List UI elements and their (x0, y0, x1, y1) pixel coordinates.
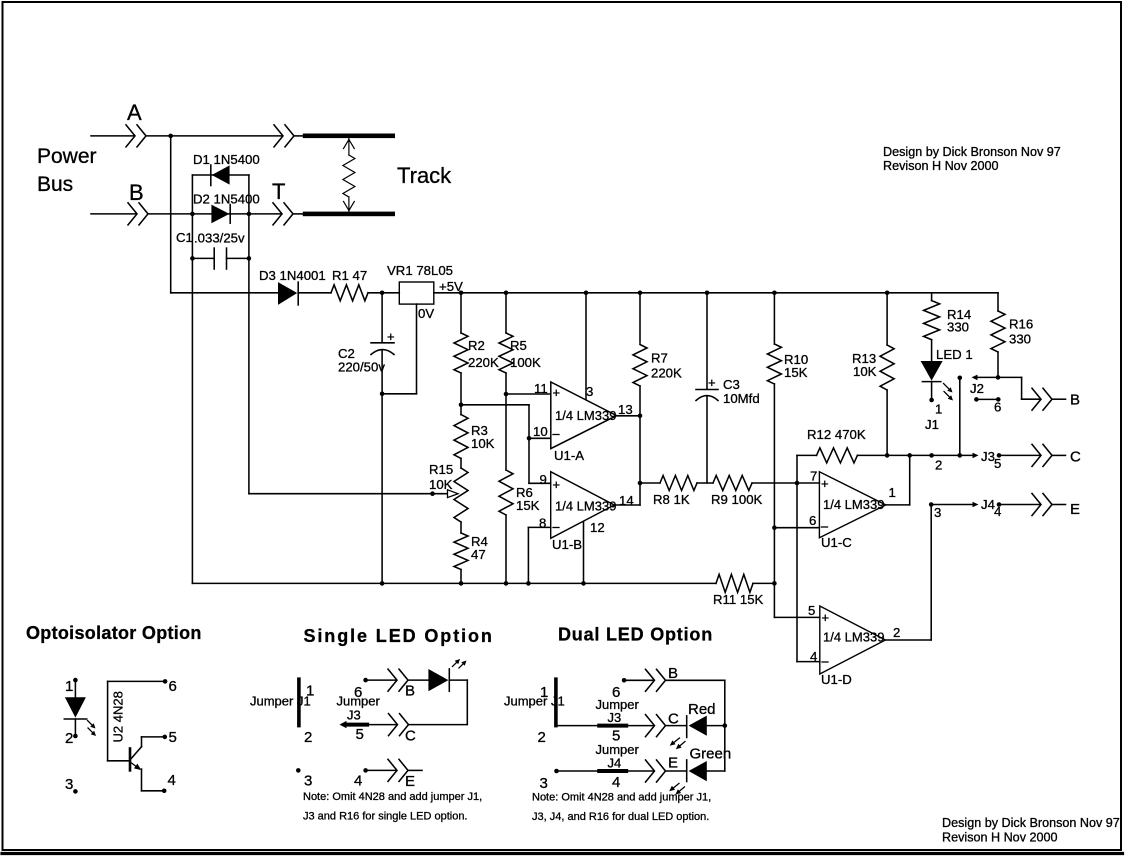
svg-text:3: 3 (540, 775, 548, 792)
svg-text:220K: 220K (651, 366, 682, 381)
svg-text:4: 4 (810, 649, 817, 664)
svg-text:330: 330 (1009, 331, 1031, 346)
svg-text:.033/25v: .033/25v (194, 231, 245, 246)
svg-text:12: 12 (590, 520, 605, 535)
svg-text:B: B (129, 180, 144, 205)
svg-text:4: 4 (168, 772, 176, 789)
svg-text:Green: Green (690, 746, 732, 763)
svg-text:J3: J3 (981, 449, 995, 464)
svg-text:7: 7 (810, 469, 817, 484)
svg-text:100K: 100K (510, 355, 541, 370)
svg-text:R8 1K: R8 1K (653, 492, 690, 507)
svg-text:D2 1N5400: D2 1N5400 (193, 192, 260, 207)
svg-text:R15: R15 (429, 462, 453, 477)
svg-text:2: 2 (893, 625, 900, 640)
svg-text:1/4 LM339: 1/4 LM339 (823, 497, 884, 512)
svg-text:R5: R5 (510, 338, 527, 353)
svg-text:10K: 10K (429, 477, 453, 492)
svg-text:+: + (708, 375, 716, 390)
svg-text:5: 5 (169, 729, 177, 746)
svg-text:J3: J3 (347, 708, 361, 723)
svg-text:J2: J2 (970, 381, 984, 396)
svg-text:D1 1N5400: D1 1N5400 (193, 152, 260, 167)
svg-text:13: 13 (618, 402, 633, 417)
svg-text:C1: C1 (176, 230, 193, 245)
svg-text:E: E (1070, 501, 1080, 518)
svg-text:4: 4 (994, 504, 1001, 519)
svg-text:2: 2 (65, 730, 73, 747)
svg-text:B: B (668, 665, 678, 682)
svg-text:C: C (668, 711, 679, 728)
svg-text:R1 47: R1 47 (332, 268, 367, 283)
svg-text:Jumper J1: Jumper J1 (250, 693, 311, 708)
svg-text:+: + (387, 329, 395, 344)
svg-text:6: 6 (994, 400, 1001, 415)
svg-text:330: 330 (947, 320, 969, 335)
svg-text:+: + (822, 610, 830, 625)
svg-text:T: T (272, 179, 285, 204)
svg-text:Note: Omit 4N28 and add jumper: Note: Omit 4N28 and add jumper J1, (532, 791, 711, 803)
svg-text:Track: Track (397, 163, 452, 188)
svg-text:Bus: Bus (37, 173, 73, 196)
svg-text:9: 9 (540, 472, 547, 487)
svg-text:J3 and R16 for single LED opti: J3 and R16 for single LED option. (303, 811, 468, 823)
svg-text:R9 100K: R9 100K (711, 492, 763, 507)
svg-text:Single LED Option: Single LED Option (304, 626, 494, 646)
svg-text:U1-A: U1-A (554, 448, 584, 463)
svg-text:1/4 LM339: 1/4 LM339 (823, 630, 884, 645)
svg-text:J3, J4, and R16 for dual LED o: J3, J4, and R16 for dual LED option. (532, 811, 709, 823)
svg-text:R16: R16 (1009, 316, 1033, 331)
svg-text:3: 3 (934, 505, 941, 520)
svg-text:VR1 78L05: VR1 78L05 (387, 263, 453, 278)
svg-text:C: C (405, 728, 416, 745)
svg-text:C3: C3 (723, 377, 740, 392)
svg-text:E: E (668, 755, 678, 772)
svg-text:5: 5 (356, 726, 364, 743)
svg-text:1: 1 (540, 684, 548, 701)
svg-text:1: 1 (935, 402, 942, 417)
svg-text:J4: J4 (608, 756, 622, 771)
svg-text:U1-B: U1-B (552, 537, 582, 552)
svg-text:2: 2 (304, 729, 312, 746)
svg-text:10: 10 (533, 424, 548, 439)
svg-text:U1-D: U1-D (821, 672, 852, 687)
svg-text:5: 5 (994, 456, 1001, 471)
svg-text:3: 3 (586, 384, 593, 399)
svg-text:5: 5 (808, 603, 815, 618)
svg-text:Optoisolator Option: Optoisolator Option (26, 623, 202, 643)
svg-text:15K: 15K (516, 498, 540, 513)
svg-text:Revison H Nov 2000: Revison H Nov 2000 (883, 159, 999, 173)
svg-text:R12 470K: R12 470K (807, 427, 866, 442)
svg-text:11: 11 (534, 381, 548, 396)
svg-text:+5V: +5V (439, 279, 463, 294)
svg-text:2: 2 (538, 729, 546, 746)
svg-text:R11 15K: R11 15K (713, 592, 764, 607)
svg-text:1: 1 (65, 678, 73, 695)
svg-text:R7: R7 (651, 351, 668, 366)
svg-text:4: 4 (612, 774, 620, 791)
svg-text:Dual LED Option: Dual LED Option (558, 624, 713, 644)
svg-text:B: B (1070, 392, 1080, 409)
svg-text:220/50v: 220/50v (338, 360, 385, 375)
svg-text:Jumper: Jumper (337, 693, 381, 708)
svg-text:15K: 15K (784, 365, 808, 380)
svg-text:Jumper J1: Jumper J1 (504, 693, 565, 708)
svg-text:Note: Omit 4N28 and add jumper: Note: Omit 4N28 and add jumper J1, (303, 791, 482, 803)
svg-text:6: 6 (809, 513, 816, 528)
svg-text:Design by Dick Bronson Nov 97: Design by Dick Bronson Nov 97 (942, 816, 1120, 830)
svg-text:+: + (553, 477, 561, 492)
svg-text:R2: R2 (468, 338, 485, 353)
svg-text:+: + (553, 385, 561, 400)
svg-text:2: 2 (935, 458, 942, 473)
svg-text:Revison H Nov 2000: Revison H Nov 2000 (942, 831, 1058, 845)
svg-text:U2 4N28: U2 4N28 (111, 691, 126, 742)
svg-text:1/4 LM339: 1/4 LM339 (555, 408, 616, 423)
svg-text:10Mfd: 10Mfd (723, 391, 760, 406)
svg-text:47: 47 (471, 547, 486, 562)
svg-text:0V: 0V (418, 306, 434, 321)
svg-text:U1-C: U1-C (821, 535, 852, 550)
svg-text:Red: Red (688, 701, 716, 718)
svg-text:3: 3 (65, 776, 73, 793)
svg-text:8: 8 (539, 516, 546, 531)
svg-text:J3: J3 (608, 710, 622, 725)
svg-text:E: E (405, 773, 415, 790)
svg-text:3: 3 (304, 772, 312, 789)
svg-text:14: 14 (619, 493, 634, 508)
svg-text:10K: 10K (853, 364, 877, 379)
svg-text:220K: 220K (468, 355, 499, 370)
svg-text:J1: J1 (925, 417, 939, 432)
svg-text:B: B (405, 683, 415, 700)
svg-text:Power: Power (37, 145, 97, 168)
svg-text:6: 6 (169, 678, 177, 695)
svg-text:4: 4 (354, 772, 362, 789)
svg-text:1/4 LM339: 1/4 LM339 (555, 499, 616, 514)
svg-text:+: + (821, 476, 829, 491)
svg-text:1: 1 (889, 485, 896, 500)
svg-text:1: 1 (306, 683, 314, 700)
svg-text:10K: 10K (471, 436, 495, 451)
svg-text:A: A (127, 100, 142, 125)
svg-text:Design by Dick Bronson Nov 97: Design by Dick Bronson Nov 97 (883, 145, 1061, 159)
svg-text:C: C (1070, 449, 1081, 466)
svg-text:D3 1N4001: D3 1N4001 (259, 268, 326, 283)
svg-text:J4: J4 (981, 497, 995, 512)
svg-text:LED 1: LED 1 (936, 347, 973, 362)
